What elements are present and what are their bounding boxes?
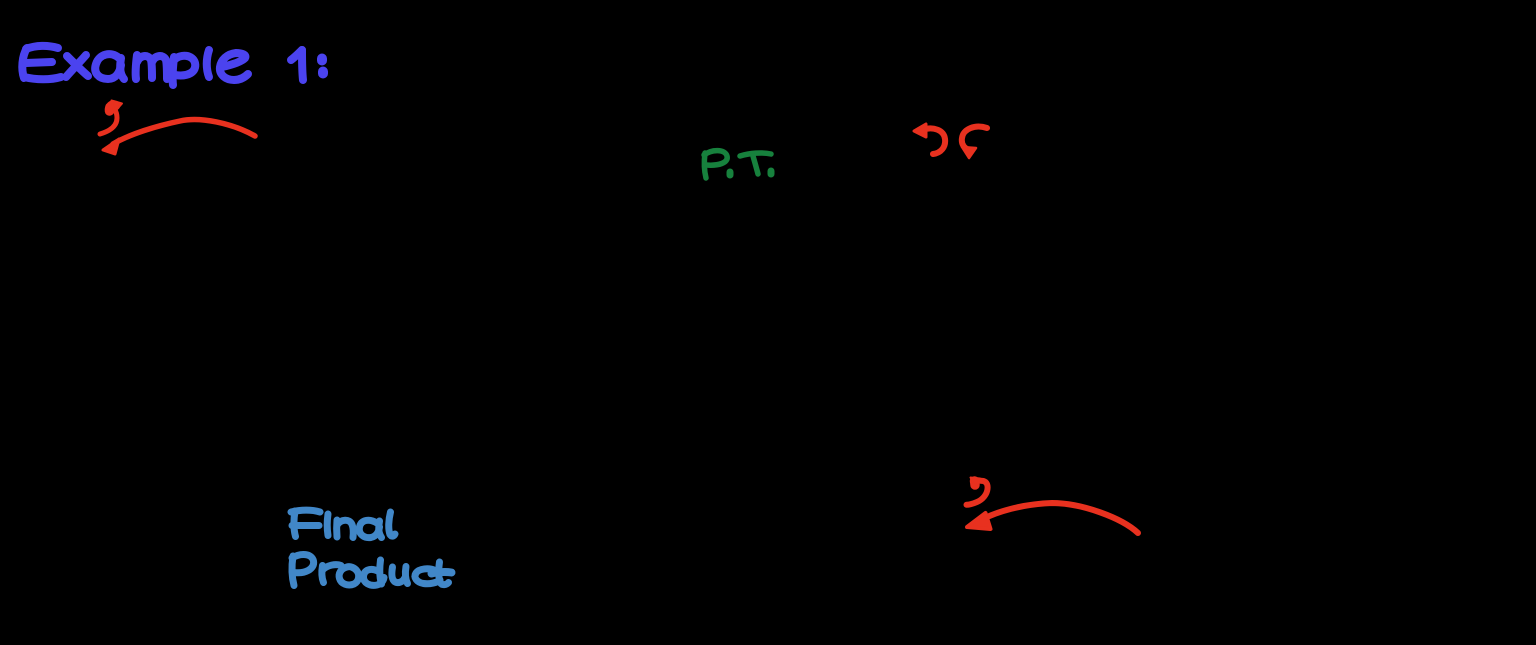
red curl arrowhead — [112, 101, 123, 113]
letter p — [173, 57, 174, 85]
l — [389, 512, 395, 536]
red curved arrow top-left — [113, 120, 255, 144]
digit 1 — [291, 50, 302, 60]
red curved arrow bottom-right — [981, 503, 1138, 533]
P — [292, 556, 294, 586]
F — [291, 510, 320, 512]
red hook left arrowhead — [914, 124, 926, 137]
d — [363, 569, 384, 585]
o — [339, 567, 359, 585]
red curl (electron pair) top-left — [100, 105, 117, 134]
letter m — [136, 55, 137, 79]
c — [415, 569, 440, 584]
red arrowhead bottom-right — [967, 513, 991, 529]
n — [333, 520, 340, 537]
letter l — [207, 50, 209, 77]
green label P.T. — [704, 151, 771, 178]
label "Final Product" — [291, 510, 452, 585]
letter x — [67, 56, 88, 76]
period after T — [768, 171, 775, 174]
letter a — [95, 54, 121, 79]
u — [392, 567, 405, 583]
period after P — [727, 172, 734, 175]
title "Example 1:" — [22, 46, 323, 85]
red arrowhead top-left — [103, 139, 119, 154]
letter e — [220, 53, 248, 80]
a — [359, 520, 379, 537]
i — [324, 514, 332, 536]
letter E — [22, 48, 27, 78]
red hook arrow right (mid top) — [962, 127, 987, 150]
red hook right arrowhead — [962, 147, 976, 158]
colon — [317, 59, 327, 61]
letter T — [740, 153, 771, 156]
letter P — [704, 153, 706, 178]
r — [322, 566, 324, 583]
t — [439, 562, 449, 585]
red curl (electron pair) bottom-right — [967, 478, 988, 505]
red hook arrow left (mid top) — [922, 128, 945, 154]
